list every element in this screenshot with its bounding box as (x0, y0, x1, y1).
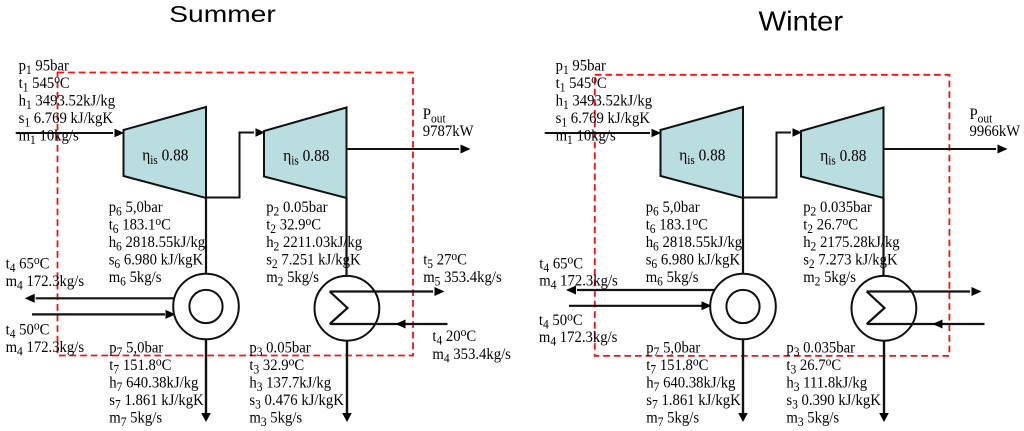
svg-text:ηis 0.88: ηis 0.88 (679, 147, 725, 167)
wire: cooling water out t5 (top) (867, 290, 970, 292)
arrowhead P_out (461, 145, 471, 154)
arrowhead cooling in (396, 320, 406, 329)
red dashed system boundary (S) (58, 73, 414, 356)
svg-text:m1 10kg/s: m1 10kg/s (556, 127, 616, 147)
label eta_is 0.88 turbine HP (W) (679, 147, 725, 167)
svg-text:Winter: Winter (759, 6, 844, 37)
wire: heating water out t4 (36, 297, 206, 299)
label heating water in t4 50C (W) (539, 309, 583, 332)
wire: steam inlet m1 (545, 132, 650, 134)
wire: cooling water in t4 (bottom) (330, 323, 448, 325)
turbine HP (eta_is 0.88) S (124, 107, 207, 198)
labels state 3 (W) (786, 339, 855, 359)
label heating water out t4 65C (S) (6, 252, 50, 275)
wire: condensate drain down (883, 335, 885, 415)
wire: cooling water in t4 (bottom) (867, 323, 985, 325)
wire: power output P_out (347, 148, 460, 150)
svg-text:m7 5kg/s: m7 5kg/s (646, 409, 699, 429)
condenser tube zigzag (867, 292, 885, 325)
svg-text:9787kW: 9787kW (423, 123, 474, 141)
label cooling water in t4 20C (432, 325, 476, 348)
wire: feedwater heater drain down (205, 335, 207, 415)
heat exchanger: condenser circle (315, 276, 380, 341)
svg-text:m3 5kg/s: m3 5kg/s (249, 409, 302, 429)
condenser tube zigzag (330, 292, 348, 325)
arrowhead P_out (998, 145, 1008, 154)
feedwater heater inner circle (726, 290, 759, 323)
wire: cooling water out t5 (top) (330, 290, 433, 292)
arrowhead cooling out (435, 287, 445, 296)
arrowhead into turbine LP (793, 128, 803, 137)
arrowhead cooling in (933, 320, 943, 329)
turbine LP (eta_is 0.88) S (264, 108, 347, 199)
feedwater heater inner circle (189, 290, 222, 323)
svg-text:m1 10kg/s: m1 10kg/s (19, 127, 79, 147)
labels state 6 (S) (109, 199, 163, 219)
wire: turbine LP exhaust to condenser (882, 198, 884, 291)
wire: power output P_out (884, 148, 997, 150)
arrowhead water out (566, 286, 576, 295)
svg-text:9966kW: 9966kW (970, 123, 1021, 141)
turbine HP (eta_is 0.88) W (661, 107, 744, 198)
label P_out (S) (423, 105, 447, 125)
svg-text:m2 5kg/s: m2 5kg/s (266, 268, 319, 288)
label heating water out t4 65C (W) (539, 252, 583, 275)
labels state 1 (W) (556, 57, 606, 77)
heat exchanger: feedwater heater (outer circle) (173, 274, 239, 340)
wire: turbine LP exhaust to condenser (345, 198, 347, 291)
wire: heating water out t4 (577, 289, 743, 291)
arrowhead into turbine HP (115, 129, 125, 138)
arrowhead cooling out (972, 287, 982, 296)
heat exchanger: condenser circle (852, 276, 917, 341)
labels state 3 (S) (249, 339, 310, 359)
label heating water in t4 50C (S) (6, 318, 50, 341)
label eta_is 0.88 turbine HP (S) (142, 147, 188, 167)
arrowhead water in (166, 310, 176, 319)
red dashed system boundary (W) (595, 75, 950, 356)
wire: bleed steam to feedwater heater (205, 198, 207, 281)
arrowhead water out (25, 294, 35, 303)
labels state 2 (S) (266, 199, 327, 219)
svg-text:Summer: Summer (169, 2, 276, 27)
arrowhead drain 7 (201, 413, 211, 422)
wire: turbine HP exhaust to turbine LP (743, 133, 791, 198)
labels state 7 (W) (646, 339, 700, 359)
arrowhead drain 3 (342, 413, 352, 422)
heat exchanger: feedwater heater (outer circle) (710, 274, 776, 340)
label P_out (W) (970, 105, 994, 125)
svg-text:m7 5kg/s: m7 5kg/s (109, 409, 162, 429)
labels state 6 (W) (646, 199, 700, 219)
svg-text:m6 5kg/s: m6 5kg/s (646, 268, 699, 288)
label eta_is 0.88 turbine LP (S) (283, 147, 329, 167)
labels state 1 (S) (19, 57, 69, 77)
title Summer (169, 2, 276, 27)
arrowhead drain 7 (738, 413, 748, 422)
svg-text:ηis 0.88: ηis 0.88 (283, 147, 329, 167)
title Winter (759, 6, 844, 37)
wire: heating water in t4 (32, 313, 165, 315)
wire: turbine HP exhaust to turbine LP (206, 133, 254, 198)
labels state 2 (W) (803, 199, 872, 219)
arrowhead into turbine HP (652, 129, 662, 138)
wire: feedwater heater drain down (742, 335, 744, 415)
wire: condensate drain down (346, 335, 348, 415)
label eta_is 0.88 turbine LP (W) (820, 147, 866, 167)
svg-text:m6 5kg/s: m6 5kg/s (109, 268, 162, 288)
arrowhead into turbine LP (256, 128, 266, 137)
svg-text:ηis 0.88: ηis 0.88 (820, 147, 866, 167)
svg-text:ηis 0.88: ηis 0.88 (142, 147, 188, 167)
wire: steam inlet m1 (16, 132, 113, 134)
turbine LP (eta_is 0.88) W (801, 108, 884, 199)
arrowhead water in (702, 301, 712, 310)
svg-text:m2 5kg/s: m2 5kg/s (803, 268, 856, 288)
labels state 7 (S) (109, 339, 163, 359)
wire: heating water in t4 (569, 305, 702, 307)
arrowhead drain 3 (879, 413, 889, 422)
wire: bleed steam to feedwater heater (742, 198, 744, 281)
label cooling water out t5 27C (423, 248, 467, 271)
svg-text:m3 5kg/s: m3 5kg/s (786, 409, 839, 429)
